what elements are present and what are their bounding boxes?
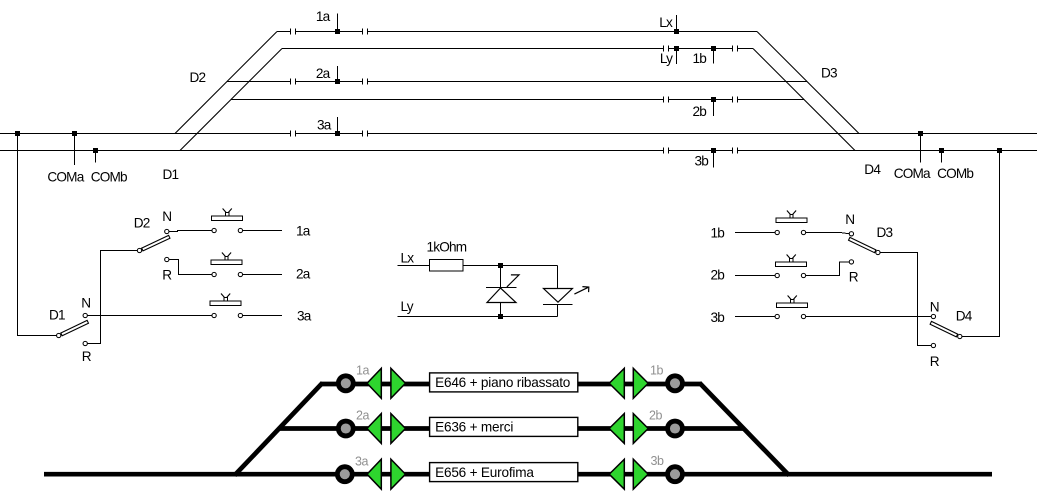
svg-text:1b: 1b — [693, 51, 707, 66]
svg-text:N: N — [81, 296, 90, 311]
svg-text:2a: 2a — [356, 409, 369, 423]
svg-text:D3: D3 — [821, 66, 837, 81]
svg-text:2a: 2a — [316, 66, 331, 81]
svg-text:2b: 2b — [649, 409, 662, 423]
svg-text:Ly: Ly — [660, 51, 673, 66]
svg-text:D1: D1 — [49, 307, 65, 322]
svg-text:N: N — [845, 212, 854, 227]
svg-text:COMb: COMb — [937, 166, 973, 181]
svg-text:3b: 3b — [651, 454, 664, 468]
svg-text:R: R — [849, 269, 859, 284]
svg-text:3a: 3a — [317, 118, 332, 133]
svg-text:2b: 2b — [693, 104, 707, 119]
svg-text:N: N — [162, 209, 171, 224]
svg-text:E646 + piano ribassato: E646 + piano ribassato — [435, 375, 570, 390]
svg-text:1kOhm: 1kOhm — [427, 240, 467, 255]
svg-text:R: R — [82, 349, 92, 364]
svg-text:R: R — [930, 354, 940, 369]
svg-text:Ly: Ly — [401, 299, 414, 314]
svg-text:2a: 2a — [296, 267, 311, 282]
svg-text:3a: 3a — [297, 308, 312, 323]
svg-text:N: N — [930, 299, 939, 314]
svg-text:Lx: Lx — [659, 15, 673, 30]
svg-text:1a: 1a — [356, 363, 369, 377]
svg-text:D4: D4 — [864, 162, 881, 177]
svg-text:COMa: COMa — [47, 170, 84, 185]
svg-text:D2: D2 — [190, 70, 206, 85]
svg-text:E636 + merci: E636 + merci — [435, 420, 513, 435]
svg-text:3b: 3b — [711, 310, 725, 325]
svg-text:R: R — [162, 267, 172, 282]
svg-text:COMb: COMb — [91, 170, 127, 185]
svg-text:1a: 1a — [296, 223, 311, 238]
svg-text:3a: 3a — [355, 454, 368, 468]
svg-text:D2: D2 — [134, 215, 150, 230]
svg-text:D3: D3 — [877, 225, 893, 240]
svg-text:1a: 1a — [316, 9, 331, 24]
svg-text:D1: D1 — [163, 167, 179, 182]
svg-text:COMa: COMa — [894, 166, 931, 181]
svg-text:3b: 3b — [695, 153, 709, 168]
svg-text:1b: 1b — [650, 364, 663, 378]
svg-text:2b: 2b — [711, 268, 725, 283]
svg-text:1b: 1b — [711, 226, 725, 241]
svg-text:D4: D4 — [956, 309, 973, 324]
svg-text:E656 + Eurofima: E656 + Eurofima — [435, 465, 534, 480]
svg-text:Lx: Lx — [401, 251, 415, 266]
